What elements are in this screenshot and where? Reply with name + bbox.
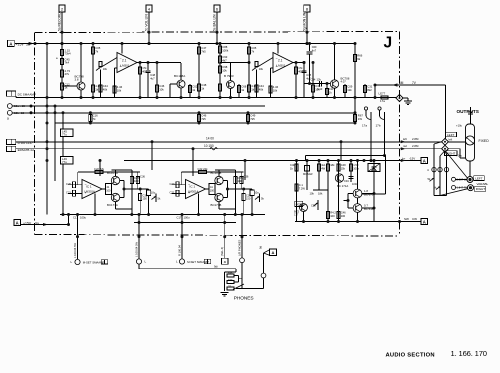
svg-text:a: a [7,117,9,121]
svg-text:7k4: 7k4 [65,61,70,65]
wire emitter rail ch2 [198,193,200,214]
capacitor C12 output elco ch2 [251,189,253,190]
wire drop x=242 phones feed [241,215,243,259]
svg-text:RIGHT: RIGHT [476,187,486,191]
capacitor C12 output elco ch1 [148,189,150,190]
svg-text:SW: SW [404,217,409,221]
svg-text:C20: C20 [170,182,175,186]
svg-text:10u: 10u [151,191,156,195]
wire output drop x=77.5 [77,215,79,260]
svg-text:2.8M: 2.8M [412,137,419,141]
svg-text:5e BAL LIN: 5e BAL LIN [213,14,217,31]
capacitor C45 (coupling, x=63) [61,129,74,137]
fixed output jack [466,124,475,161]
connector A +15V (lower left) [14,219,21,225]
transistor Q8 MC888 (bias) [300,204,308,212]
transistor Q3 BC709 [227,81,235,89]
resistor column x=249 [248,44,250,98]
svg-text:177: 177 [294,213,299,217]
wire -15V rail (y=112.8) [12,112,356,114]
svg-text:15k: 15k [341,166,346,170]
variable jack RIGHT [468,185,474,191]
resistor R36 ch1 [137,172,139,189]
svg-text:10u: 10u [254,191,259,195]
svg-text:M-SET SMAAMP: M-SET SMAAMP [187,260,209,264]
ground phones [221,292,229,294]
svg-text:+15V: +15V [16,42,25,46]
connector A speaker out (right) [421,218,428,224]
pot left 5k [430,178,434,181]
wire left-ch line out bus (y=141.8) [16,141,442,143]
resistor R49 between rails (x=248) [247,113,249,123]
transistor BC107A [111,176,119,184]
wire drop x=224.7 (select) [224,215,226,259]
wire op-amp 2 supply [277,44,279,54]
svg-text:BC 678: BC 678 [364,192,374,196]
component M (x=307) [306,161,308,191]
svg-text:C17: C17 [177,216,182,220]
connector circle L out [75,259,80,264]
svg-text:A: A [272,250,275,255]
resistor R85 100R [337,212,340,219]
svg-text:BC177B: BC177B [211,203,222,207]
transistor BC107B [215,176,223,184]
svg-text:L 100.04 5%: L 100.04 5% [135,241,139,257]
resistor R46 between rails (x=199) [198,113,200,123]
trimmer pot IC2 gain [255,62,258,67]
trimmer pot IC1 gain [99,62,102,67]
wire output attenuator verticals [433,144,435,196]
trimmer pot ch1 [155,194,157,203]
transistor BC177A [111,193,119,201]
svg-text:J: J [384,35,393,52]
svg-text:BC 171A: BC 171A [337,184,348,188]
diode D77 to ground (border) [396,94,403,101]
svg-text:4u7: 4u7 [150,76,155,80]
svg-text:2.8M: 2.8M [412,144,419,148]
trimmer pot ch2 [259,194,261,203]
svg-text:L/R PHONES: L/R PHONES [238,240,242,256]
ground (right of diode) [404,100,412,102]
connector 15a +15V rail (left) [7,104,12,109]
wire op-amp 1 supply [121,44,123,54]
svg-text:C54: C54 [311,78,316,82]
svg-text:5a RECORD: 5a RECORD [58,12,62,31]
resistor R43 (x=319) [318,161,320,191]
node power block rail joins [295,159,298,162]
node bus junctions on +15V bus [46,42,49,45]
svg-text:LM301: LM301 [121,63,130,67]
svg-text:5g MON LIN: 5g MON LIN [303,12,307,31]
wire emitter rail ch1 [94,193,96,214]
resistor column x=199 [198,44,200,98]
svg-text:C36: C36 [140,175,145,179]
svg-text:BC107A: BC107A [107,171,118,175]
svg-text:PHONES: PHONES [234,295,254,301]
wire monitor feed down to LEFT node [445,85,447,138]
resistor R41 7W2 [295,184,298,191]
svg-text:C48: C48 [306,73,311,77]
svg-text:-15V: -15V [409,156,415,160]
muting switch contact 17b [378,107,381,110]
svg-text:10k: 10k [103,67,108,71]
resistor base coupling ch2 [209,184,215,195]
svg-text:4W: 4W [321,166,325,170]
svg-text:4k7: 4k7 [222,58,227,62]
pot right 5k [436,187,440,190]
svg-text:left: left [449,138,453,142]
wire output drop x=182 [181,215,183,259]
resistor R09 (x=345) [344,84,346,98]
svg-text:17a: 17a [362,124,367,128]
svg-text:18k: 18k [330,163,335,167]
resistor base coupling ch1 [106,184,112,195]
svg-text:+10u: +10u [456,154,463,158]
svg-text:10 150: 10 150 [204,144,214,148]
svg-text:IC 1: IC 1 [190,184,196,188]
svg-text:OUTPUTS: OUTPUTS [457,109,479,114]
resistor R23 ch1 [131,170,133,215]
svg-text:4n7: 4n7 [312,48,317,52]
svg-text:MOSAR: MOSAR [303,172,313,176]
svg-text:(SEL 4): (SEL 4) [220,247,224,256]
svg-text:1W: 1W [358,117,363,121]
op-amp IC1 LM301A [117,53,137,73]
svg-text:40k: 40k [103,87,108,91]
connector circle R out [179,259,184,264]
svg-text:LE77: LE77 [379,92,386,96]
svg-text:LEFT: LEFT [447,133,455,137]
wire vertical feed x=63 with coupling caps [62,113,64,129]
svg-text:3.8: 3.8 [75,78,79,82]
wire diagonal to variable left [445,151,468,179]
svg-text:100u: 100u [80,216,86,220]
svg-text:17b: 17b [376,124,381,128]
svg-text:10k: 10k [310,192,315,196]
capacitor output IC2 [303,63,305,71]
svg-text:C40: C40 [290,163,295,167]
svg-text:150: 150 [142,197,147,201]
svg-text:B 7903: B 7903 [224,74,234,78]
wire vertical feed x=100 into ch1 [99,161,101,177]
wire 0V rail (y=97.5) [16,97,396,99]
svg-text:C28: C28 [311,204,316,208]
svg-text:9di: 9di [214,264,218,268]
wire vertical feed x=55 [54,106,56,181]
measurement arrow 6V/7V [375,84,446,86]
svg-text:BC177A: BC177A [107,203,118,207]
svg-text:R4.2: R4.2 [330,211,336,215]
resistor column x=355 (supply dropper) [354,44,356,124]
svg-text:100u: 100u [184,216,190,220]
svg-text:FIXED: FIXED [479,139,490,143]
wire lower section 0V bus (y=214.5) [60,214,265,216]
connector 15b -15V rail (left) [7,110,12,115]
svg-text:A: A [9,41,12,46]
svg-text:150: 150 [246,197,251,201]
input connector pin 8 (top, x=307) [304,5,310,12]
resistor R30 ch1 [139,189,141,215]
svg-text:+10u: +10u [456,124,463,128]
wire vertical feed x=47 [46,44,48,215]
capacitor C0F (x=309.5) [309,44,311,52]
resistor R22 feedback ch2 [199,170,207,173]
resistor R22 feedback ch1 [95,170,103,173]
svg-text:LEFT: LEFT [475,177,483,181]
op-amp IC2 LM301A (headphone amp) [186,180,206,199]
wire feedback top rail ch2 [181,171,243,173]
transistor Q2 BC108A [177,80,185,88]
svg-text:C34: C34 [344,179,349,183]
resistor R44 (x=328) [327,161,329,222]
diode D7 [373,161,375,222]
resistor R23 ch2 [234,170,236,215]
svg-text:12k: 12k [347,88,352,92]
svg-text:8k2: 8k2 [367,88,372,92]
svg-text:7.2W: 7.2W [299,186,306,190]
node RIGHT output diamond [442,145,449,152]
svg-text:left: left [403,137,407,141]
input connector pin 2 (top, x=62) [59,5,65,12]
svg-text:A: A [423,219,426,224]
resistor column x=93 [92,44,94,98]
wire -15V bus to output (y=160.5) [124,160,421,162]
svg-text:C21: C21 [66,191,71,195]
svg-text:10k: 10k [273,88,278,92]
capacitor C54 on base line [319,81,321,87]
resistor R45 (x=338.5) [338,161,340,222]
svg-text:MC888: MC888 [296,202,305,206]
wire output stage ch2 [206,188,210,190]
resistor R31 (x=365) [364,84,366,98]
schematic border (dash-dot module outline) [34,33,36,235]
resistor R84 100R [326,212,329,219]
svg-text:LM301: LM301 [277,63,286,67]
svg-text:A: A [16,220,19,225]
svg-text:100: 100 [106,188,111,192]
wire R55 bias divider [313,189,328,191]
connector 11 DC servo (left) [7,91,12,96]
svg-text:C22 22k: C22 22k [198,167,209,171]
svg-text:C46: C46 [341,211,346,215]
wire fixed-to-variable link [469,161,471,177]
resistor input R21 ch1 [72,190,75,196]
svg-text:17k: 17k [298,66,303,70]
connector 14 ERSATB (left) [7,146,12,151]
wire right-ch line out bus (y=148.7) [16,148,442,150]
resistor bias IC2 [312,63,314,98]
svg-text:C20: C20 [66,182,71,186]
wire A-supply riser x=68.5 [68,215,70,225]
svg-text:12k: 12k [317,78,322,82]
svg-text:17k: 17k [142,66,147,70]
wire feed from left-out bus to power block [340,142,342,161]
svg-text:IC 1: IC 1 [86,184,92,188]
svg-text:2.1: 2.1 [278,59,283,63]
svg-text:C48: C48 [150,73,155,77]
svg-text:R 100.04: R 100.04 [178,245,182,256]
resistor column R13/R45/R12 (x=62) [61,44,63,98]
wire phones return y=268.8 [139,268,236,270]
phones switch arm [233,284,244,290]
transistor Q4 BC708A [330,80,338,88]
resistor R30 (x=351) [350,161,352,176]
svg-text:100k: 100k [353,166,359,170]
svg-text:BC107B: BC107B [211,171,222,175]
trimmer pot bias [317,200,319,210]
resistor input R20 ch1 [72,182,75,188]
svg-text:C36: C36 [244,175,249,179]
svg-text:40k: 40k [259,87,264,91]
wire vertical feed x=152 [151,142,153,170]
wire op-amp2 output jog [303,63,305,84]
svg-text:4.07: 4.07 [341,80,347,84]
connector A +15V (top left) [8,40,15,46]
resistor R40 1k (power blk) [296,161,298,222]
svg-text:LM301A: LM301A [188,190,199,194]
wire op-amp 1 output [137,62,181,64]
svg-text:180: 180 [228,271,233,275]
connector A phones plug [264,250,270,253]
svg-text:47k: 47k [65,72,70,76]
svg-text:C48: C48 [341,163,346,167]
svg-text:9d: 9d [259,245,263,249]
input connector pin 4 (top, x=149) [146,5,152,12]
op-amp IC2 LM301A [273,53,293,73]
node border crossing arrows (right) [401,140,406,143]
wire feedback loop power amp [306,155,386,157]
wire vertical feed x=193 [192,149,194,176]
transistor Q7 BC638 (output NPN) [353,204,362,213]
wire output drop x=139 [138,215,140,259]
capacitor C77 on 0V rail [374,85,376,98]
svg-text:10k: 10k [259,67,264,71]
svg-text:100: 100 [330,214,335,218]
wire op-amp 2 output [293,62,304,64]
wire pot wiper to op-amp 2 [257,58,274,68]
capacitor C34 100n [350,175,352,182]
svg-text:7k5: 7k5 [201,49,206,53]
wire +15V rail (y=106) [12,105,265,107]
svg-text:VARABL: VARABL [477,182,489,186]
op-amp IC1 LM301A (headphone amp) [82,180,102,199]
resistor output IC1 [139,63,141,98]
svg-text:77u: 77u [62,133,67,137]
node LEFT output diamond [446,132,457,137]
resistor non-inv input IC1 [114,68,116,98]
transistor Q5 BC171A (driver) [335,174,343,182]
resistor output IC2 [295,63,297,98]
svg-text:10k: 10k [159,87,164,91]
svg-text:C21: C21 [170,191,175,195]
svg-text:1. 166. 170: 1. 166. 170 [451,349,487,358]
capacitor C46 (coupling, x=63) [61,157,74,165]
svg-text:LM301A: LM301A [85,190,96,194]
svg-text:7k5: 7k5 [250,117,255,121]
svg-text:77u: 77u [62,160,67,164]
wire junction to output pair [357,161,359,190]
svg-text:10k: 10k [117,88,122,92]
capacitor output IC1 [147,63,149,71]
svg-text:C0F: C0F [312,45,317,49]
resistor input R20 ch2 [176,182,179,188]
resistor R68 (x=239) [238,84,240,98]
resistor bias IC1 [156,63,158,98]
svg-text:BC108A: BC108A [174,74,185,78]
connector 13 LTDA CLIP (left) [7,139,12,144]
svg-text:nul: nul [403,144,407,148]
svg-text:1.50: 1.50 [353,163,359,167]
resistor R36 ch2 [240,172,242,189]
variable jack LEFT [467,177,473,183]
thermistor block C.1 [368,164,380,172]
svg-text:18k: 18k [318,192,323,196]
svg-text:C22 22k: C22 22k [94,167,105,171]
svg-text:10k: 10k [222,68,227,72]
wire diagonal to variable right [440,189,468,196]
svg-text:2.1: 2.1 [122,59,127,63]
transistor Q1 BC708 (input) [77,82,85,90]
phones attenuator resistors [224,272,226,291]
svg-text:100k: 100k [222,48,229,52]
resistor R30 ch2 [243,189,245,215]
svg-text:7k5: 7k5 [201,117,206,121]
svg-text:6M: 6M [399,81,404,85]
wire power amp output (y=221.5) [295,221,421,223]
connector A -15V (right) [421,157,428,163]
svg-text:BC 638: BC 638 [364,207,374,211]
resistor R47 column (x=190) [189,84,191,98]
connector circle (plug) [261,273,266,278]
svg-text:17a: 17a [380,99,385,103]
svg-text:C.1: C.1 [299,183,304,187]
svg-text:AUDIO SECTION: AUDIO SECTION [386,352,435,358]
svg-text:A: A [423,158,426,163]
svg-text:100: 100 [210,188,215,192]
svg-text:1k1: 1k1 [321,163,326,167]
svg-text:180: 180 [228,278,233,282]
svg-text:CW: CW [412,217,417,221]
svg-text:73k4: 73k4 [65,52,72,56]
muting switch contact 17a [364,107,367,110]
wire block internal joins [373,192,376,195]
svg-text:4.10: 4.10 [317,87,323,91]
svg-text:5c VOL LIN: 5c VOL LIN [145,14,149,31]
svg-text:14 00: 14 00 [206,137,214,141]
connector circle phones [240,258,245,263]
svg-text:DC SMAAMP: DC SMAAMP [18,93,36,97]
wire supply rail (y=123) [55,122,355,124]
resistor non-inv input IC2 [270,68,272,98]
wire pot wiper to op-amp 1 [101,58,118,68]
connector a (x=224.7) [222,258,228,264]
svg-text:L 100.04 5%: L 100.04 5% [73,242,77,258]
resistor input R21 ch2 [176,190,179,196]
wire +15V bus (y=43.5) [35,43,356,45]
input connector pin 6 (top, x=217) [214,5,220,12]
transistor BC177B [215,193,223,201]
svg-text:a: a [224,260,226,264]
resistor stack x=220 (R88/R93/R98) [219,44,221,98]
resistor R11 1k [326,84,328,98]
connector circle (x=139) [136,259,141,264]
wire lower link y=222.5 [134,222,236,224]
capacitor on fixed jack feed [470,107,472,124]
resistor R16 between rails (x=90.4) [89,113,91,123]
transistor Q6 BC678 (output PNP) [353,189,362,198]
wire output stage ch1 [102,188,106,190]
svg-text:100: 100 [341,214,346,218]
